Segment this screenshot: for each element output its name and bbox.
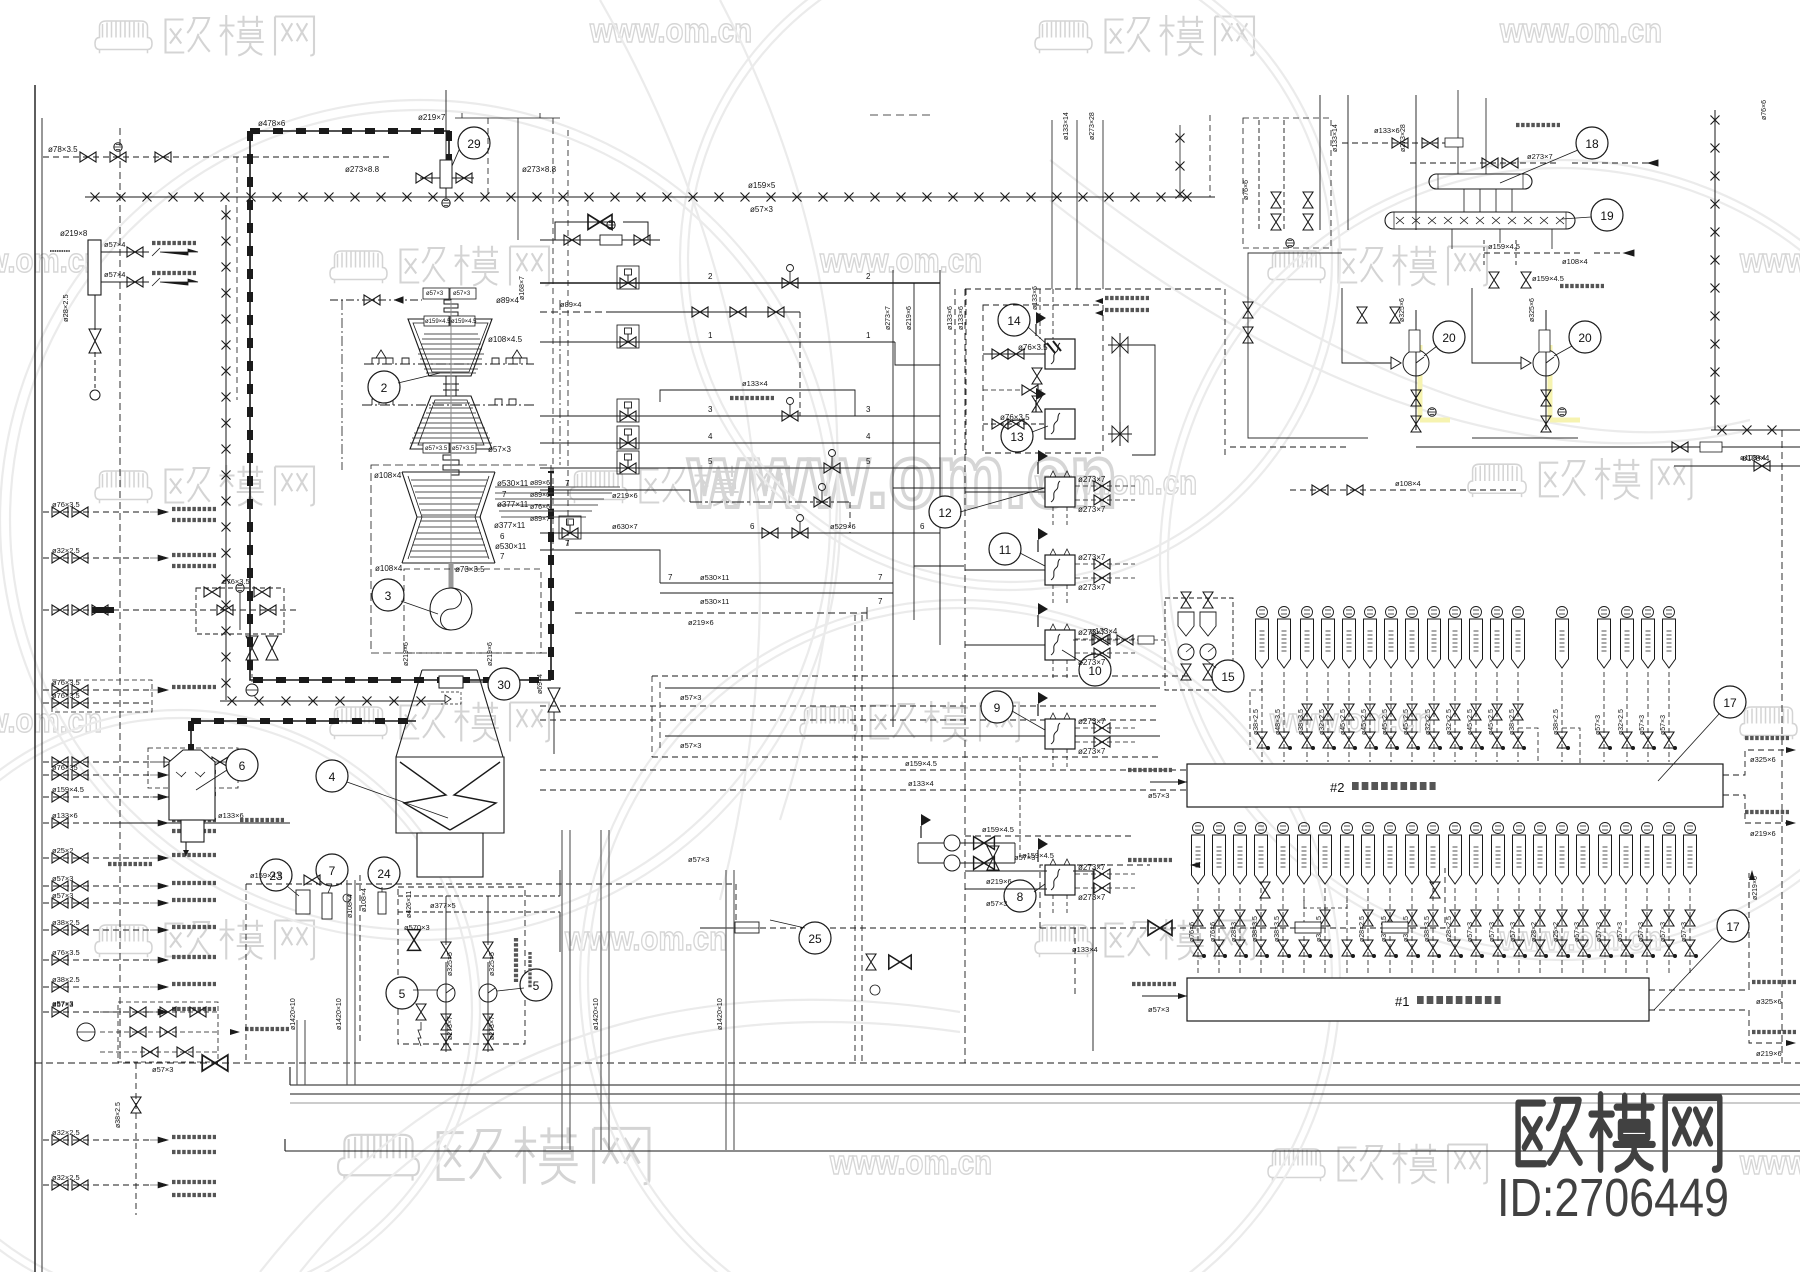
trap A17 <box>1535 823 1546 834</box>
svg-text:ø133×6: ø133×6 <box>1032 286 1039 310</box>
svg-text:8: 8 <box>1017 890 1024 904</box>
vent <box>90 390 100 400</box>
four-way valve A <box>1108 333 1132 357</box>
svg-text:1: 1 <box>708 331 713 340</box>
svg-text:ø57×3: ø57×3 <box>1596 922 1603 942</box>
valve row 690 <box>52 685 68 695</box>
drain header drop <box>43 1063 150 1215</box>
svg-text:ø57×3: ø57×3 <box>1148 791 1169 800</box>
svg-text:ø57×3: ø57×3 <box>52 874 73 883</box>
svg-text:ø1420×10: ø1420×10 <box>336 998 343 1030</box>
svg-text:ø38×2.5: ø38×2.5 <box>1509 709 1516 735</box>
valve row 987 <box>52 982 68 992</box>
svg-text:ø159×4.5: ø159×4.5 <box>250 871 282 880</box>
valve row 903 <box>52 898 68 908</box>
IP exhaust crossover bellows <box>423 443 476 475</box>
svg-text:ø32×2.5: ø32×2.5 <box>1618 709 1625 735</box>
condensate return small group right of item25 <box>866 954 876 970</box>
trap B7 <box>1386 607 1397 618</box>
svg-text:ø57×3: ø57×3 <box>680 741 701 750</box>
svg-text:ø108×4: ø108×4 <box>375 564 403 573</box>
svg-text:ø133×4: ø133×4 <box>742 379 768 388</box>
valve row 775 <box>52 770 68 780</box>
dashed jumpers bank B <box>1250 680 1262 750</box>
trap A14 <box>1471 823 1482 834</box>
turbine IP section <box>410 396 492 449</box>
long dashed phi219x6 <box>575 612 867 614</box>
extraction line 2 <box>540 282 940 284</box>
svg-text:ø76×6: ø76×6 <box>1243 180 1250 200</box>
svg-text:ø89×6: ø89×6 <box>530 492 550 499</box>
extraction line 3 <box>540 415 940 417</box>
drawing frame left double border <box>34 85 36 1272</box>
svg-text:ø159×4.5: ø159×4.5 <box>425 319 451 325</box>
shaft coupling waist <box>443 376 459 396</box>
heater 14 <box>1045 339 1075 369</box>
svg-text:ø78×3.5: ø78×3.5 <box>48 145 78 154</box>
svg-text:ø45×2.5: ø45×2.5 <box>1403 709 1410 735</box>
drain pump B <box>1521 310 1559 430</box>
svg-text:ø38×2.5: ø38×2.5 <box>1253 709 1260 735</box>
svg-text:ø38×3.5: ø38×3.5 <box>1252 916 1259 942</box>
trap A6 <box>1299 823 1310 834</box>
svg-text:ø630×7: ø630×7 <box>612 522 638 531</box>
svg-text:ø377×5: ø377×5 <box>430 901 456 910</box>
svg-text:ø57×3: ø57×3 <box>488 445 511 454</box>
trap A18 <box>1557 823 1568 834</box>
svg-text:ø57×3: ø57×3 <box>1467 922 1474 942</box>
svg-text:ø89×4: ø89×4 <box>560 300 581 309</box>
condensate pumps near heater 8 <box>944 835 960 851</box>
svg-text:ø76×3.5: ø76×3.5 <box>1000 413 1030 422</box>
svg-text:ø273×28: ø273×28 <box>1089 112 1096 140</box>
svg-text:ø133×4: ø133×4 <box>1072 945 1098 954</box>
item circle 18 <box>1576 127 1608 159</box>
drains to right bank area <box>1073 871 1093 1051</box>
svg-text:ø57×3: ø57×3 <box>426 291 444 297</box>
trap A24 <box>1685 823 1696 834</box>
svg-text:ø28×3: ø28×3 <box>1231 922 1238 942</box>
svg-text:ø273×28: ø273×28 <box>1400 124 1407 152</box>
svg-text:ø219×6: ø219×6 <box>906 306 913 330</box>
item 23 <box>260 859 292 891</box>
trap B10 <box>1450 607 1461 618</box>
safety valve <box>89 329 101 353</box>
svg-text:ø38×3.5: ø38×3.5 <box>1298 709 1305 735</box>
svg-text:ø159×5: ø159×5 <box>748 181 776 190</box>
svg-text:7: 7 <box>668 573 673 582</box>
svg-text:7: 7 <box>500 552 505 561</box>
svg-text:ø133×4: ø133×4 <box>908 779 934 788</box>
trap B3 <box>1302 607 1313 618</box>
trap B15 <box>1599 607 1610 618</box>
svg-text:ø219×6: ø219×6 <box>1752 876 1759 900</box>
item 29 blowdown <box>420 160 474 198</box>
svg-text:9: 9 <box>994 701 1001 715</box>
page right dashed boundary <box>1781 430 1783 1063</box>
instrument <box>442 199 450 207</box>
svg-text:ø57×3: ø57×3 <box>152 1065 173 1074</box>
svg-text:ø108×4: ø108×4 <box>374 471 402 480</box>
svg-text:ø76×3.5: ø76×3.5 <box>52 948 80 957</box>
svg-text:ø57×4: ø57×4 <box>104 240 125 249</box>
svg-text:ø57×3: ø57×3 <box>1014 853 1035 862</box>
svg-text:ø57×3: ø57×3 <box>1681 922 1688 942</box>
trap A4 <box>1256 823 1267 834</box>
wire: main steam X line horizontal <box>85 110 1800 701</box>
trap B13 <box>1513 607 1524 618</box>
svg-text:ø48×3.5: ø48×3.5 <box>1275 709 1282 735</box>
svg-text:ø32×2.5: ø32×2.5 <box>52 546 80 555</box>
boiler drain cooler vessels <box>1385 174 1575 229</box>
svg-text:ø273×7: ø273×7 <box>489 1016 496 1040</box>
svg-text:ø273×7: ø273×7 <box>1527 152 1553 161</box>
svg-text:19: 19 <box>1600 209 1614 223</box>
heater 11 <box>1045 555 1075 585</box>
svg-text:ø69×4: ø69×4 <box>537 674 544 694</box>
line phi89x4 <box>612 311 800 313</box>
svg-text:#2: #2 <box>1330 780 1344 795</box>
trap A11 <box>1407 823 1418 834</box>
svg-text:ø89×4: ø89×4 <box>496 296 519 305</box>
line phi219x6 dashdot <box>690 501 850 503</box>
svg-text:ø57×3: ø57×3 <box>1510 922 1517 942</box>
HP inlet bellows <box>330 288 476 326</box>
svg-text:ø76×3.5: ø76×3.5 <box>52 678 80 687</box>
svg-text:ø133×4: ø133×4 <box>1090 627 1118 636</box>
svg-text:29: 29 <box>467 137 481 151</box>
NE dashed enclosure <box>1243 118 1331 248</box>
svg-text:ø530×11: ø530×11 <box>700 597 729 606</box>
trap A21 <box>1621 823 1632 834</box>
svg-text:ID:2706449: ID:2706449 <box>1497 1168 1729 1228</box>
svg-text:5: 5 <box>533 979 540 993</box>
arrow to steam attemperator upper <box>160 249 198 255</box>
trap B5 <box>1344 607 1355 618</box>
svg-text:ø273×7: ø273×7 <box>1078 505 1106 514</box>
svg-text:ø133×14: ø133×14 <box>1332 124 1339 152</box>
svg-text:ø28×2.5: ø28×2.5 <box>1446 916 1453 942</box>
drains to emergency flash tank <box>1484 240 1634 266</box>
svg-text:ø57×3.5: ø57×3.5 <box>425 446 448 452</box>
valve row 930 <box>52 925 68 935</box>
trap A2 <box>1214 823 1225 834</box>
valve <box>127 247 143 257</box>
big valve on boundary <box>202 1055 228 1071</box>
svg-text:ø89×6: ø89×6 <box>530 480 550 487</box>
svg-text:ø28×2.5: ø28×2.5 <box>1359 916 1366 942</box>
svg-text:ø57×3: ø57×3 <box>52 891 73 900</box>
turbine HP section hourglass <box>408 319 492 449</box>
svg-text:ø76×3.5: ø76×3.5 <box>52 500 80 509</box>
svg-text:ø273×7: ø273×7 <box>1078 553 1106 562</box>
svg-text:ø168×7: ø168×7 <box>519 276 526 300</box>
flash vessel #1 <box>1187 978 1649 1021</box>
svg-text:ø159×4.5: ø159×4.5 <box>1532 274 1564 283</box>
svg-text:5: 5 <box>866 457 871 466</box>
svg-text:ø45×2.5: ø45×2.5 <box>1340 709 1347 735</box>
svg-text:ø76×6: ø76×6 <box>1189 922 1196 942</box>
svg-text:7: 7 <box>565 539 570 548</box>
turbine group dashdot boundary <box>342 300 560 470</box>
svg-text:ø28×2.5: ø28×2.5 <box>61 294 70 322</box>
svg-text:ø57×3.5: ø57×3.5 <box>452 446 475 452</box>
svg-text:15: 15 <box>1221 670 1235 684</box>
trap A3 <box>1235 823 1246 834</box>
vertical dashed pair center <box>855 615 862 1063</box>
svg-text:ø1420×10: ø1420×10 <box>290 998 297 1030</box>
vessel1 outlets right <box>1649 873 1789 1043</box>
svg-text:ø377×11: ø377×11 <box>497 500 529 509</box>
heating zone outer dashed boundary <box>965 289 1225 455</box>
trap B1 <box>1257 607 1268 618</box>
phi159x4.5 drain line <box>246 883 636 885</box>
svg-text:ø530×11: ø530×11 <box>700 573 729 582</box>
svg-text:ø273×7: ø273×7 <box>1078 717 1106 726</box>
trap A9 <box>1363 823 1374 834</box>
item circle 17 lower <box>1717 910 1749 942</box>
svg-text:ø273×8.8: ø273×8.8 <box>522 165 557 174</box>
svg-text:14: 14 <box>1007 314 1021 328</box>
svg-text:ø28×2: ø28×2 <box>1531 922 1538 942</box>
svg-text:ø219×6: ø219×6 <box>1750 829 1776 838</box>
valve row 512 <box>52 507 68 517</box>
svg-text:ø38×3.5: ø38×3.5 <box>1424 916 1431 942</box>
svg-text:ø108×4: ø108×4 <box>1742 454 1770 463</box>
svg-text:ø133×6: ø133×6 <box>52 811 78 820</box>
heater 10 <box>1045 630 1075 660</box>
svg-text:ø57×3: ø57×3 <box>1489 922 1496 942</box>
svg-text:ø219×6: ø219×6 <box>1756 1049 1782 1058</box>
svg-text:7: 7 <box>565 479 570 488</box>
condenser internal zigzag <box>400 762 500 830</box>
extraction line 7a <box>540 490 690 502</box>
svg-text:7: 7 <box>878 573 883 582</box>
svg-text:5: 5 <box>708 457 713 466</box>
svg-text:ø57×3: ø57×3 <box>1639 715 1646 735</box>
trap B14 <box>1557 607 1568 618</box>
item 24 <box>368 857 400 889</box>
svg-text:ø32×2.5: ø32×2.5 <box>1319 709 1326 735</box>
svg-text:3: 3 <box>708 405 713 414</box>
svg-text:ø45×2.5: ø45×2.5 <box>1467 709 1474 735</box>
trap B2 <box>1279 607 1290 618</box>
valve row 703 <box>52 698 68 708</box>
svg-text:ø57×4: ø57×4 <box>104 270 125 279</box>
LP extraction pipes to right <box>495 487 620 517</box>
svg-text:ø159×4.5: ø159×4.5 <box>1488 242 1520 251</box>
lower drain bundle <box>540 676 1290 790</box>
site logo glyph MO <box>1591 1095 1653 1170</box>
valve row 1185 <box>52 1180 68 1190</box>
svg-text:11: 11 <box>999 543 1012 557</box>
svg-text:2: 2 <box>866 272 871 281</box>
svg-text:ø325×6: ø325×6 <box>1399 298 1406 322</box>
svg-text:ø219×6: ø219×6 <box>487 642 494 666</box>
wire: riser to item 29 <box>445 90 447 162</box>
small vv pair right of 13/14 <box>1357 307 1367 323</box>
svg-text:ø426×11: ø426×11 <box>406 891 413 918</box>
svg-text:ø325×6: ø325×6 <box>1750 755 1776 764</box>
extraction line 7b <box>540 550 660 583</box>
LP turbine hourglass <box>387 472 510 563</box>
svg-text:ø325×5: ø325×5 <box>447 952 454 976</box>
trap B9 <box>1429 607 1440 618</box>
svg-text:ø219×6: ø219×6 <box>403 642 410 666</box>
svg-text:30: 30 <box>497 678 511 692</box>
valve row 886 <box>52 881 68 891</box>
svg-text:ø73×3.5: ø73×3.5 <box>455 565 485 574</box>
heater zone dashed boundary <box>964 289 966 1063</box>
svg-text:ø133×6: ø133×6 <box>958 306 965 330</box>
svg-text:ø76×3.5: ø76×3.5 <box>222 577 250 586</box>
valve row 762 <box>52 757 68 767</box>
valve row 1012 <box>52 1007 68 1017</box>
svg-text:4: 4 <box>329 770 336 784</box>
svg-text:ø57×3: ø57×3 <box>1148 1005 1169 1014</box>
feed piping above <box>1259 95 1658 230</box>
valve row 610 <box>52 605 68 615</box>
pump 5 B <box>479 984 497 1002</box>
svg-text:3: 3 <box>866 405 871 414</box>
right risers <box>893 270 966 620</box>
svg-text:ø32×2.5: ø32×2.5 <box>1446 709 1453 735</box>
wire: exhaust to condenser <box>396 670 504 833</box>
valve row 558 <box>52 553 68 563</box>
svg-text:ø159×4.5: ø159×4.5 <box>52 785 84 794</box>
svg-text:13: 13 <box>1010 430 1024 444</box>
svg-text:ø133×6: ø133×6 <box>947 306 954 330</box>
valve <box>127 277 143 287</box>
suction headers <box>1248 253 1578 438</box>
valve <box>155 152 171 162</box>
item circle 19 <box>1591 199 1623 231</box>
HP bypass loop <box>540 222 660 240</box>
item circle 2 <box>368 371 400 403</box>
svg-text:ø32×2.5: ø32×2.5 <box>52 1128 80 1137</box>
svg-text:ø57×3: ø57×3 <box>1574 922 1581 942</box>
lines to condensate tank right <box>1230 447 1800 466</box>
item 30 gland steam condenser <box>439 676 489 704</box>
svg-text:ø377×11: ø377×11 <box>494 521 526 530</box>
generator <box>430 588 472 630</box>
svg-text:ø45×2.5: ø45×2.5 <box>1488 709 1495 735</box>
item circle 29 <box>458 127 490 159</box>
valve <box>80 152 96 162</box>
svg-text:4: 4 <box>708 432 713 441</box>
shaft <box>450 300 452 588</box>
svg-text:1: 1 <box>866 331 871 340</box>
svg-text:7: 7 <box>329 864 336 878</box>
pump 5 A <box>437 984 455 1002</box>
svg-text:ø159×4.5: ø159×4.5 <box>905 759 937 768</box>
yellow highlight strips <box>1420 345 1580 420</box>
insulation X marks <box>91 193 100 202</box>
trap B6 <box>1365 607 1376 618</box>
bottom dashed zone border <box>965 835 1135 837</box>
risers between vessels <box>1452 90 1552 249</box>
trap A19 <box>1578 823 1589 834</box>
flash vessel #2 <box>1187 764 1723 807</box>
svg-text:ø76×35: ø76×35 <box>52 763 78 772</box>
vertical dashed pipes above 14 <box>1040 289 1053 339</box>
svg-text:ø76×3.5: ø76×3.5 <box>52 691 80 700</box>
svg-text:ø57×3: ø57×3 <box>986 899 1007 908</box>
svg-text:ø478×6: ø478×6 <box>258 119 286 128</box>
svg-text:6: 6 <box>920 522 925 531</box>
item 15 drain pump unit <box>1165 598 1233 690</box>
svg-text:7: 7 <box>502 490 507 499</box>
svg-text:ø76×6: ø76×6 <box>1210 922 1217 942</box>
item circle 4 <box>316 760 348 792</box>
svg-text:ø57×3: ø57×3 <box>1638 922 1645 942</box>
dashed boundary near thick line <box>236 157 238 400</box>
svg-text:25: 25 <box>808 932 822 946</box>
link line heater10 to 15 <box>1073 639 1165 641</box>
trap A8 <box>1342 823 1353 834</box>
trap A15 <box>1493 823 1504 834</box>
thick dashed furnace boundary loop <box>191 131 551 752</box>
dashed enclosure around LP/generator <box>371 465 551 653</box>
svg-text:ø159×4.5: ø159×4.5 <box>451 319 477 325</box>
valve row 858 <box>52 853 68 863</box>
svg-text:ø219×6: ø219×6 <box>612 491 638 500</box>
svg-text:7: 7 <box>878 597 883 606</box>
extraction line 1 <box>540 341 895 343</box>
valve row 823 <box>52 818 68 828</box>
svg-text:ø57×3: ø57×3 <box>1617 922 1624 942</box>
svg-text:ø529×6: ø529×6 <box>830 522 856 531</box>
top-left feedwater row <box>43 156 390 158</box>
item 25 <box>799 922 831 954</box>
site logo glyph WANG <box>1665 1098 1720 1170</box>
bottom horizontal mains <box>290 1084 1800 1086</box>
svg-text:ø38×2.5: ø38×2.5 <box>1553 709 1560 735</box>
svg-text:ø76×6: ø76×6 <box>1761 100 1768 120</box>
trap B17 <box>1643 607 1654 618</box>
valve row 960 <box>52 955 68 965</box>
trap A13 <box>1450 823 1461 834</box>
svg-text:ø325×5: ø325×5 <box>489 952 496 976</box>
svg-text:ø325×6: ø325×6 <box>1756 997 1782 1006</box>
left dashed boundary <box>119 128 121 1063</box>
vessel2 inlet left <box>1150 781 1187 783</box>
trap A5 <box>1278 823 1289 834</box>
svg-text:ø32×2.5: ø32×2.5 <box>1425 709 1432 735</box>
circulating water pump unit <box>360 870 690 1052</box>
svg-text:4: 4 <box>866 432 871 441</box>
heater 8 <box>1045 865 1075 895</box>
svg-text:ø273×7: ø273×7 <box>447 1016 454 1040</box>
svg-text:ø108×4.5: ø108×4.5 <box>488 335 523 344</box>
svg-text:6: 6 <box>750 522 755 531</box>
svg-text:ø159×4.5: ø159×4.5 <box>982 825 1014 834</box>
svg-text:ø1420×10: ø1420×10 <box>717 998 724 1030</box>
trap A10 <box>1385 823 1396 834</box>
trap B18 <box>1664 607 1675 618</box>
vessel1 inlet left <box>1142 995 1187 997</box>
svg-text:18: 18 <box>1585 137 1599 151</box>
trap B8 <box>1407 607 1418 618</box>
blowoff line down from header <box>94 295 96 388</box>
trap A1 <box>1193 823 1204 834</box>
svg-text:ø133×6: ø133×6 <box>1374 126 1400 135</box>
svg-text:ø219×8: ø219×8 <box>60 229 88 238</box>
svg-text:ø57×3: ø57×3 <box>1660 715 1667 735</box>
svg-text:ø45×2.5: ø45×2.5 <box>1382 709 1389 735</box>
svg-text:17: 17 <box>1726 920 1740 934</box>
svg-text:ø273×8.8: ø273×8.8 <box>345 165 380 174</box>
